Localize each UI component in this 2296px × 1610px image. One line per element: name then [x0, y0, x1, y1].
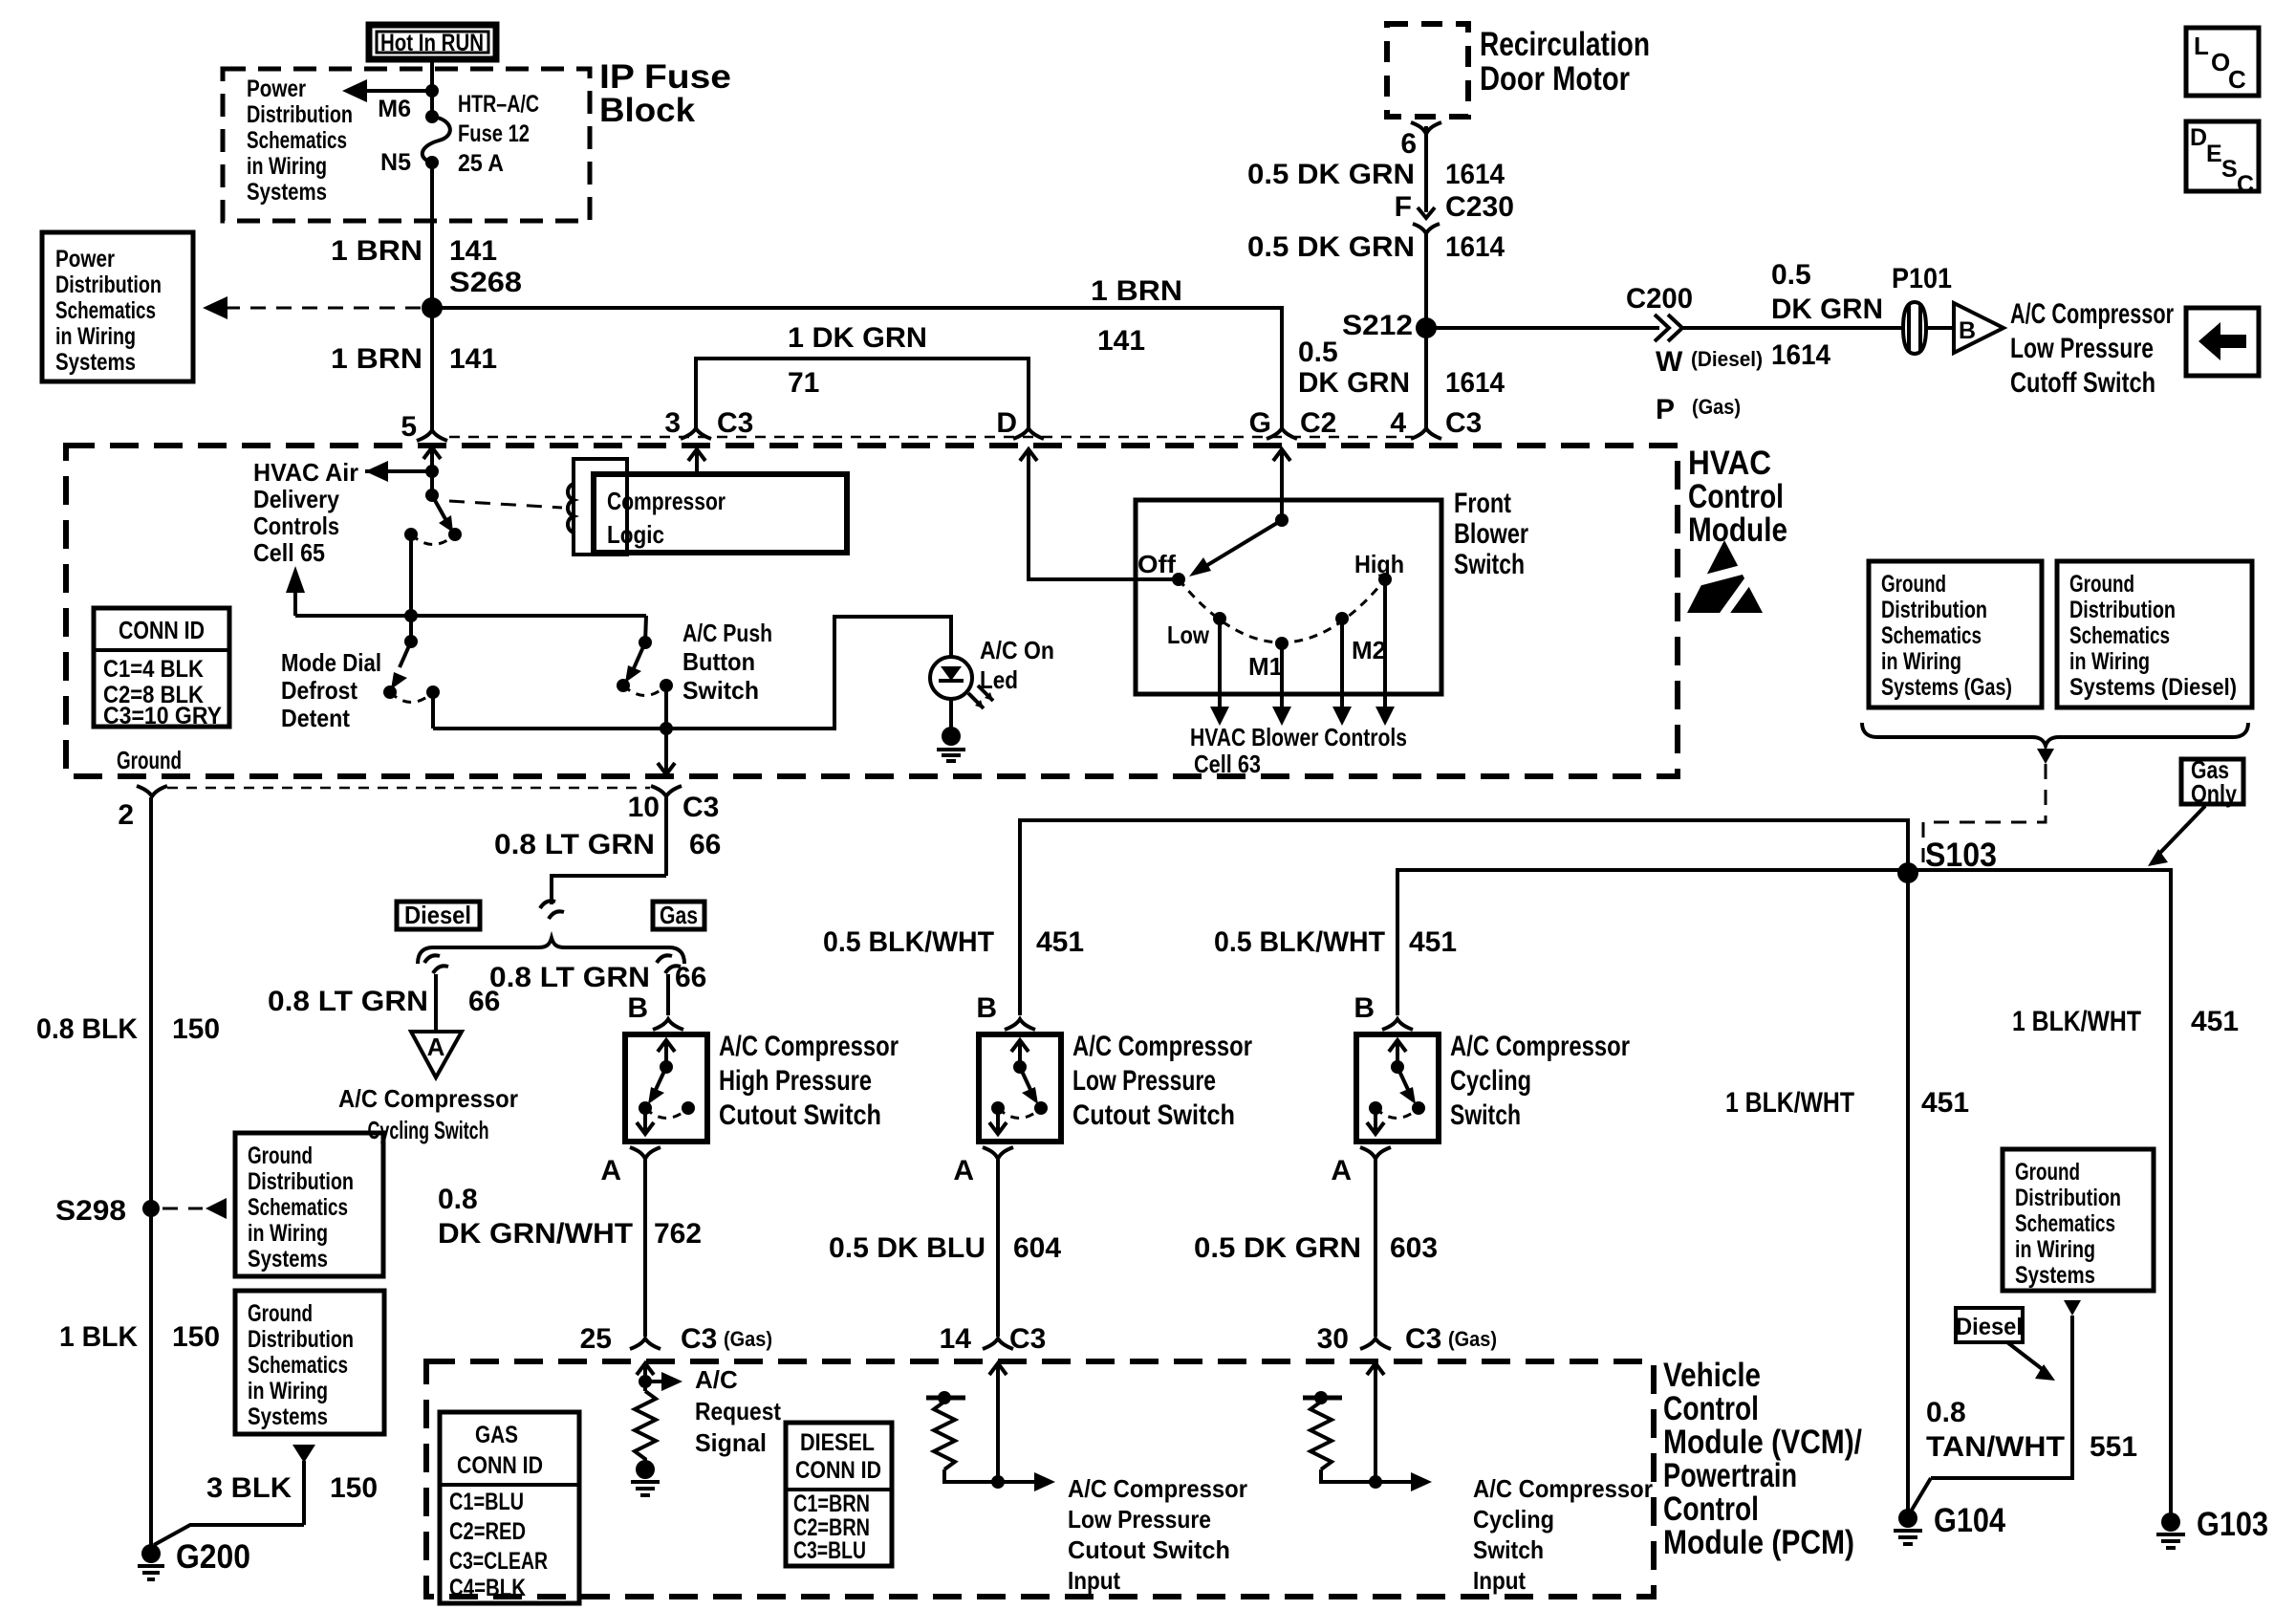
connector chevron pin 6	[1411, 122, 1441, 134]
svg-text:A/C Compressor: A/C Compressor	[1473, 1474, 1653, 1503]
svg-text:C3: C3	[717, 407, 753, 439]
switch A/C compressor low pressure cutout	[979, 1031, 1252, 1142]
svg-text:Compressor: Compressor	[607, 487, 726, 515]
connector chevron B high pressure	[653, 1019, 683, 1030]
svg-text:3 BLK: 3 BLK	[206, 1472, 292, 1504]
svg-text:Low Pressure: Low Pressure	[1068, 1505, 1211, 1534]
svg-text:Cutout Switch: Cutout Switch	[1068, 1535, 1230, 1564]
svg-text:G200: G200	[176, 1538, 250, 1576]
svg-text:A/C On: A/C On	[980, 636, 1054, 664]
VCM pin 25 internal A/C request signal	[637, 1363, 781, 1457]
svg-text:Systems: Systems	[248, 1246, 328, 1273]
connector chevron pin G	[1267, 428, 1297, 439]
wire 0.8 TAN/WHT 551	[1911, 1300, 2137, 1512]
svg-text:Schematics: Schematics	[2069, 622, 2170, 649]
brace ground distribution references	[1862, 723, 2248, 764]
svg-text:141: 141	[449, 343, 497, 375]
svg-text:762: 762	[654, 1218, 702, 1250]
svg-text:Ground: Ground	[2069, 571, 2134, 598]
svg-text:Detent: Detent	[281, 704, 350, 732]
node B A/C Compressor Low Pressure Cutoff Switch	[1954, 298, 2174, 399]
svg-text:Cycling: Cycling	[1473, 1505, 1554, 1534]
svg-text:Ground: Ground	[117, 746, 182, 774]
svg-text:604: 604	[1013, 1232, 1061, 1264]
wire compressor logic to pin 3	[688, 449, 705, 474]
wire 3 BLK 150 from box to G200	[154, 1445, 378, 1545]
connector chevron pin 30	[1360, 1338, 1391, 1349]
svg-text:C230: C230	[1445, 191, 1514, 223]
svg-text:Low: Low	[1167, 620, 1210, 649]
svg-text:Distribution: Distribution	[248, 1326, 354, 1353]
connector chevron pin 2	[137, 786, 167, 796]
wire S268 to HVAC pin 5	[430, 308, 434, 430]
wire 0.8 LT GRN 66 from pin 10	[494, 797, 721, 904]
wire label 1 BLK/WHT 451 right	[2012, 1006, 2239, 1037]
svg-text:Ground: Ground	[1881, 571, 1946, 598]
wire 1 BLK/WHT 451 S103 to G104	[1725, 873, 1969, 1515]
svg-text:0.5: 0.5	[1771, 259, 1811, 291]
svg-text:0.5 BLK/WHT: 0.5 BLK/WHT	[823, 926, 994, 958]
connector chevron A high pressure	[630, 1147, 661, 1159]
svg-text:1614: 1614	[1445, 159, 1505, 190]
svg-text:1 BLK: 1 BLK	[59, 1321, 138, 1353]
blower output arrows to HVAC blower controls	[1190, 579, 1407, 778]
connector chevron pin D	[1013, 428, 1044, 439]
svg-text:S: S	[2221, 156, 2238, 183]
svg-text:150: 150	[172, 1013, 220, 1045]
svg-text:Cutout Switch: Cutout Switch	[1072, 1099, 1235, 1131]
svg-text:A/C Compressor: A/C Compressor	[1450, 1031, 1630, 1062]
svg-text:in Wiring: in Wiring	[1881, 648, 1961, 675]
svg-text:Schematics: Schematics	[248, 1352, 348, 1379]
svg-text:Front: Front	[1454, 488, 1511, 519]
svg-text:A/C Compressor: A/C Compressor	[338, 1084, 518, 1113]
svg-text:1 BRN: 1 BRN	[331, 343, 422, 375]
connector chevron A cycling	[1360, 1147, 1391, 1159]
wire P101 to cutoff switch	[1926, 326, 1954, 330]
IP Fuse Block	[223, 58, 731, 221]
svg-text:Only: Only	[2191, 779, 2237, 808]
svg-text:DK GRN: DK GRN	[1298, 367, 1410, 399]
svg-text:CONN ID: CONN ID	[457, 1452, 543, 1479]
wire pin G to blower pivot	[1273, 449, 1290, 520]
svg-text:HVAC Blower Controls: HVAC Blower Controls	[1190, 723, 1407, 751]
svg-text:B: B	[1959, 317, 1976, 344]
svg-text:Ground: Ground	[248, 1142, 313, 1169]
svg-text:D: D	[996, 407, 1017, 439]
svg-text:HVAC Air: HVAC Air	[253, 458, 358, 487]
svg-text:71: 71	[788, 367, 819, 399]
Ground Distribution reference box (lower right)	[2003, 1149, 2154, 1291]
wire horizontal to cell 65 arrow and push button	[295, 614, 646, 618]
VCM pin 30 internal cycling switch input	[1303, 1363, 1653, 1595]
Ground Distribution reference box (lower left)	[235, 1291, 384, 1434]
svg-text:Logic: Logic	[607, 520, 664, 549]
svg-text:G: G	[1249, 407, 1271, 439]
node junction cell65 line	[404, 609, 418, 622]
svg-text:1 BLK/WHT: 1 BLK/WHT	[1725, 1087, 1854, 1119]
svg-text:Signal: Signal	[695, 1428, 767, 1457]
svg-text:IP Fuse: IP Fuse	[599, 58, 731, 96]
VCM/PCM dashed box	[426, 1357, 1862, 1597]
DESC legend box	[2186, 121, 2259, 198]
svg-text:Input: Input	[1068, 1566, 1120, 1595]
svg-text:451: 451	[1409, 926, 1457, 958]
svg-text:CONN ID: CONN ID	[795, 1457, 881, 1484]
svg-text:Distribution: Distribution	[248, 1168, 354, 1195]
dashed reference link to S103	[1923, 764, 2046, 862]
wire 1 BRN 141 from S268 to HVAC pin G C2	[432, 275, 1282, 430]
svg-text:Switch: Switch	[1450, 1099, 1521, 1131]
svg-text:A: A	[600, 1155, 621, 1186]
Recirculation Door Motor box	[1387, 24, 1650, 117]
svg-text:Fuse 12: Fuse 12	[458, 120, 530, 147]
wire from Hot In RUN to fuse	[430, 59, 434, 117]
in-line connector C200	[1655, 315, 1763, 425]
svg-text:A: A	[953, 1155, 974, 1186]
svg-text:C: C	[2237, 171, 2254, 198]
diesel branch break symbol	[424, 955, 448, 973]
splice S268	[422, 297, 443, 318]
Gas Only tag box	[2181, 755, 2243, 808]
wire S212 down to HVAC pin 4 C3	[1424, 328, 1428, 430]
svg-text:451: 451	[1036, 926, 1084, 958]
Power Distribution Schematics reference box (left)	[42, 232, 193, 381]
svg-text:141: 141	[1097, 325, 1145, 357]
svg-text:G103: G103	[2197, 1506, 2268, 1543]
switch HVAC air delivery	[404, 489, 462, 545]
svg-text:0.8 LT GRN: 0.8 LT GRN	[268, 986, 428, 1017]
wire 0.8 DK GRN/WHT 762	[438, 1160, 772, 1355]
svg-text:1614: 1614	[1771, 339, 1830, 371]
svg-text:(Diesel): (Diesel)	[1691, 347, 1763, 371]
HVAC Control Module dashed box	[66, 445, 1787, 776]
svg-text:C2=RED: C2=RED	[449, 1518, 526, 1545]
svg-text:6: 6	[1400, 128, 1417, 160]
svg-text:Cycling Switch: Cycling Switch	[368, 1116, 489, 1144]
svg-text:A/C Push: A/C Push	[682, 619, 772, 647]
svg-text:A: A	[1331, 1155, 1352, 1186]
svg-text:14: 14	[940, 1323, 972, 1355]
svg-text:0.8: 0.8	[438, 1184, 478, 1215]
svg-text:25 A: 25 A	[458, 150, 504, 177]
dashed reference arrow from S268	[203, 296, 421, 319]
svg-text:Distribution: Distribution	[2069, 597, 2176, 623]
arrow gas only to wire	[2148, 806, 2205, 866]
svg-text:Button: Button	[682, 647, 755, 676]
svg-text:Low Pressure: Low Pressure	[1072, 1065, 1216, 1097]
svg-text:Systems (Diesel): Systems (Diesel)	[2069, 674, 2237, 701]
Diesel tag with arrow	[1956, 1308, 2055, 1381]
thin connector dash line along HVAC bottom border	[167, 787, 650, 790]
wire diesel branch to cycling switch triangle	[268, 974, 500, 1032]
dashed mechanical link to compressor logic coil	[449, 501, 562, 508]
svg-text:Cutout Switch: Cutout Switch	[719, 1099, 881, 1131]
svg-text:25: 25	[580, 1323, 612, 1355]
gas branch break symbol	[657, 955, 681, 973]
splice S103	[1897, 837, 1997, 883]
wire S212 to C200	[1426, 326, 1659, 330]
svg-text:Schematics: Schematics	[55, 297, 156, 324]
svg-text:Diesel: Diesel	[404, 901, 471, 929]
ESD sensitive device symbol	[1687, 540, 1763, 624]
svg-text:S103: S103	[1925, 837, 1997, 874]
svg-text:Vehicle: Vehicle	[1663, 1357, 1761, 1394]
svg-text:G104: G104	[1934, 1502, 2005, 1539]
in-line connector C230	[1395, 191, 1514, 233]
svg-text:0.5 DK GRN: 0.5 DK GRN	[1194, 1232, 1361, 1264]
svg-text:Distribution: Distribution	[247, 101, 353, 128]
svg-text:M2: M2	[1352, 636, 1386, 664]
svg-text:0.8 LT GRN: 0.8 LT GRN	[494, 829, 655, 860]
svg-text:Input: Input	[1473, 1566, 1526, 1595]
fuse F12 HTR-A/C 25A	[378, 91, 539, 177]
svg-text:C2: C2	[1300, 407, 1336, 439]
connector chevron pin 5	[417, 430, 447, 441]
svg-text:B: B	[627, 992, 648, 1024]
svg-text:C3=CLEAR: C3=CLEAR	[449, 1548, 548, 1575]
svg-text:C3: C3	[1445, 407, 1482, 439]
svg-text:(Gas): (Gas)	[1692, 395, 1741, 419]
connector chevron pin 25	[630, 1338, 661, 1349]
svg-text:551: 551	[2090, 1431, 2137, 1463]
svg-text:C1=BLU: C1=BLU	[449, 1489, 524, 1515]
switch A/C compressor high pressure cutout	[625, 1031, 899, 1142]
svg-text:C200: C200	[1626, 283, 1693, 315]
svg-text:66: 66	[675, 962, 706, 993]
svg-text:1 BRN: 1 BRN	[1091, 275, 1182, 307]
arrow to cell 65	[286, 566, 305, 616]
Ground Distribution reference box (upper left)	[235, 1133, 383, 1276]
svg-text:5: 5	[401, 411, 417, 443]
svg-text:DK GRN: DK GRN	[1771, 294, 1883, 325]
svg-text:Module: Module	[1688, 511, 1787, 549]
svg-text:Cutoff Switch: Cutoff Switch	[2010, 367, 2155, 399]
svg-text:Delivery: Delivery	[253, 485, 339, 513]
svg-text:Systems: Systems	[247, 179, 327, 206]
svg-text:Systems: Systems	[55, 349, 136, 376]
svg-text:Control: Control	[1688, 478, 1784, 515]
svg-text:603: 603	[1390, 1232, 1438, 1264]
wire 0.5 DK BLU 604	[829, 1160, 1061, 1355]
ground G200	[138, 1538, 250, 1579]
wire mode dial bottom bus	[433, 617, 951, 774]
DIESEL CONN ID table	[786, 1423, 892, 1566]
svg-text:C1=4 BLK: C1=4 BLK	[103, 656, 204, 683]
svg-text:High Pressure: High Pressure	[719, 1065, 872, 1097]
svg-text:E: E	[2206, 141, 2222, 167]
svg-text:0.5 DK GRN: 0.5 DK GRN	[1247, 231, 1415, 263]
front blower switch	[1136, 488, 1528, 694]
svg-text:451: 451	[1921, 1087, 1969, 1119]
svg-text:Distribution: Distribution	[55, 272, 162, 298]
svg-text:HVAC: HVAC	[1688, 445, 1771, 482]
svg-text:GAS: GAS	[475, 1422, 518, 1448]
svg-text:Systems (Gas): Systems (Gas)	[1881, 674, 2012, 701]
svg-text:Hot In RUN: Hot In RUN	[380, 30, 484, 56]
svg-text:Diesel: Diesel	[1956, 1314, 2023, 1340]
svg-text:N5: N5	[380, 149, 411, 176]
svg-text:1614: 1614	[1445, 367, 1505, 399]
svg-text:Schematics: Schematics	[1881, 622, 1982, 649]
Diesel tag box	[397, 901, 480, 929]
Ground Distribution reference box (Diesel)	[2057, 561, 2252, 707]
svg-text:Blower: Blower	[1454, 518, 1528, 550]
svg-text:A/C Compressor: A/C Compressor	[2010, 298, 2174, 330]
svg-text:P: P	[1656, 394, 1675, 425]
blower switch contacts and arm	[1137, 513, 1404, 681]
svg-text:A/C Compressor: A/C Compressor	[1072, 1031, 1252, 1062]
svg-text:0.5 DK BLU: 0.5 DK BLU	[829, 1232, 986, 1264]
switch mode dial defrost detent	[281, 635, 440, 732]
svg-text:TAN/WHT: TAN/WHT	[1926, 1431, 2065, 1463]
VCM pin 14 internal low pressure cutout input	[926, 1363, 1247, 1595]
svg-text:A/C: A/C	[695, 1365, 738, 1394]
svg-text:Defrost: Defrost	[281, 676, 357, 705]
svg-text:Ground: Ground	[248, 1300, 313, 1327]
svg-text:Request: Request	[695, 1397, 781, 1425]
connector chevron B cycling	[1382, 1019, 1413, 1030]
svg-text:Ground: Ground	[2015, 1159, 2080, 1186]
svg-text:High: High	[1354, 550, 1404, 578]
LED A/C On	[930, 636, 1054, 708]
connector chevron pin 3	[681, 428, 711, 439]
node Hot In RUN	[369, 25, 496, 59]
svg-text:HTR–A/C: HTR–A/C	[458, 91, 539, 118]
svg-text:A/C Compressor: A/C Compressor	[1068, 1474, 1247, 1503]
svg-text:Switch: Switch	[1454, 549, 1525, 580]
svg-text:Module (VCM)/: Module (VCM)/	[1663, 1424, 1862, 1461]
svg-text:in Wiring: in Wiring	[248, 1220, 328, 1247]
node feed arrow in IP fuse block	[342, 79, 439, 102]
Compressor Logic box U1	[594, 474, 847, 553]
svg-text:(Gas): (Gas)	[1448, 1327, 1497, 1351]
svg-text:Control: Control	[1663, 1390, 1759, 1427]
Gas tag box	[653, 901, 704, 929]
svg-text:Cycling: Cycling	[1450, 1065, 1531, 1097]
svg-text:M1: M1	[1248, 652, 1283, 681]
svg-text:DIESEL: DIESEL	[800, 1429, 875, 1456]
svg-text:Schematics: Schematics	[248, 1194, 348, 1221]
svg-text:Off: Off	[1137, 550, 1176, 578]
wire 0.5 DK GRN 1614 to C230	[1424, 126, 1428, 212]
svg-text:Block: Block	[599, 92, 696, 129]
resistor to ground pin 25	[631, 1391, 660, 1495]
svg-text:C: C	[2228, 65, 2246, 94]
svg-text:in Wiring: in Wiring	[2015, 1236, 2095, 1263]
svg-text:B: B	[1354, 992, 1375, 1024]
svg-text:1 DK GRN: 1 DK GRN	[788, 322, 927, 354]
svg-text:S298: S298	[55, 1195, 126, 1227]
wire 0.5 BLK/WHT 451 cycling to G103	[1214, 870, 2171, 1518]
wire pin2 ground to G200	[149, 797, 153, 1549]
svg-text:Gas: Gas	[660, 901, 698, 929]
switch A/C compressor cycling	[1356, 1031, 1630, 1142]
svg-text:30: 30	[1317, 1323, 1349, 1355]
svg-text:3: 3	[664, 407, 681, 439]
svg-text:141: 141	[449, 235, 497, 267]
svg-text:Schematics: Schematics	[2015, 1210, 2115, 1237]
svg-text:10: 10	[628, 792, 660, 823]
svg-text:L: L	[2194, 32, 2209, 60]
svg-text:F: F	[1395, 191, 1412, 223]
svg-text:Systems: Systems	[2015, 1262, 2095, 1289]
arrow pin5 into module	[423, 447, 441, 495]
ground G103	[2156, 1506, 2268, 1548]
HVAC air delivery controls label	[253, 458, 358, 567]
svg-text:A/C Compressor: A/C Compressor	[719, 1031, 899, 1062]
svg-text:Mode Dial: Mode Dial	[281, 648, 381, 677]
svg-text:in Wiring: in Wiring	[2069, 648, 2150, 675]
brace diesel/gas options	[418, 938, 684, 964]
wire 1 DK GRN 71 from HVAC pin 3 to pin D	[696, 322, 1029, 430]
svg-text:0.5: 0.5	[1298, 337, 1338, 368]
wire C200 to P101	[1682, 326, 1903, 330]
svg-text:in Wiring: in Wiring	[248, 1378, 328, 1404]
svg-text:1 BLK/WHT: 1 BLK/WHT	[2012, 1006, 2141, 1037]
svg-text:M6: M6	[378, 96, 411, 122]
svg-text:Low Pressure: Low Pressure	[2010, 333, 2154, 364]
svg-text:C3=10 GRY: C3=10 GRY	[103, 703, 222, 729]
svg-text:Power: Power	[55, 246, 115, 272]
splice S212	[1416, 317, 1437, 338]
svg-text:DK GRN/WHT: DK GRN/WHT	[438, 1218, 633, 1250]
svg-text:C3: C3	[682, 792, 719, 823]
wire break option symbol	[540, 901, 564, 919]
svg-text:CONN ID: CONN ID	[119, 616, 205, 644]
svg-text:66: 66	[689, 829, 721, 860]
connector chevron pin 10	[651, 786, 682, 796]
svg-text:S212: S212	[1342, 310, 1413, 341]
svg-text:0.5 BLK/WHT: 0.5 BLK/WHT	[1214, 926, 1385, 958]
svg-text:(Gas): (Gas)	[724, 1327, 772, 1351]
svg-text:0.5 DK GRN: 0.5 DK GRN	[1247, 159, 1415, 190]
svg-text:C3=BLU: C3=BLU	[793, 1537, 866, 1564]
svg-text:Controls: Controls	[253, 511, 339, 540]
wire Off contact to pin D	[1020, 449, 1179, 579]
svg-text:C3: C3	[1009, 1323, 1046, 1355]
svg-text:1614: 1614	[1445, 231, 1505, 263]
wire 0.5 DK GRN 603	[1194, 1160, 1497, 1355]
svg-text:0.8: 0.8	[1926, 1397, 1966, 1428]
svg-text:1 BRN: 1 BRN	[331, 235, 422, 267]
wire 0.5 BLK/WHT 451 low pressure to S103	[823, 820, 1908, 1024]
svg-text:4: 4	[1390, 407, 1406, 439]
ground G104	[1894, 1502, 2005, 1544]
svg-text:Distribution: Distribution	[2015, 1185, 2121, 1211]
svg-text:S268: S268	[449, 267, 522, 298]
svg-text:Recirculation: Recirculation	[1480, 26, 1650, 63]
svg-text:C3: C3	[681, 1323, 717, 1355]
svg-text:2: 2	[118, 799, 134, 831]
svg-text:451: 451	[2191, 1006, 2239, 1037]
wire gas branch to high pressure switch	[489, 962, 706, 1024]
svg-text:Module (PCM): Module (PCM)	[1663, 1524, 1854, 1561]
svg-text:B: B	[976, 992, 997, 1024]
Ground Distribution reference box (Gas)	[1869, 561, 2042, 707]
svg-text:C1=BRN: C1=BRN	[793, 1490, 870, 1517]
svg-text:Schematics: Schematics	[247, 127, 347, 154]
GAS CONN ID table	[440, 1412, 579, 1603]
svg-text:Door Motor: Door Motor	[1480, 60, 1630, 98]
in-line connector P101	[1892, 263, 1952, 354]
svg-text:A: A	[427, 1033, 445, 1061]
LOC legend box	[2186, 28, 2259, 96]
svg-text:Systems: Systems	[248, 1403, 328, 1430]
splice S298	[55, 1195, 227, 1227]
left-arrow legend box	[2186, 308, 2259, 376]
connector chevron A low pressure	[983, 1147, 1013, 1159]
